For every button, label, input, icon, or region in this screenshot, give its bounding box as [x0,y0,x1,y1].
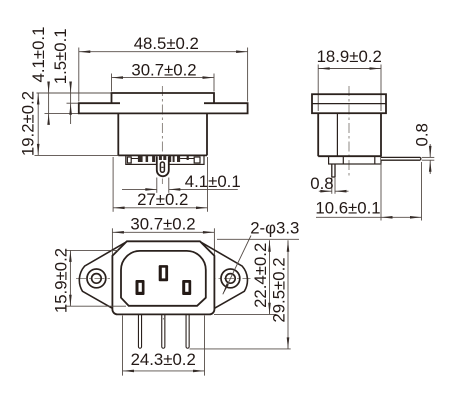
svg-text:0.8: 0.8 [413,123,432,146]
flange view2 [312,94,386,113]
dim 22.4 line [269,240,271,314]
vertical pin ext lines [331,177,333,194]
dim 10.6 line [316,216,422,218]
center post view1 [157,156,169,176]
dim 24.3 line [123,370,205,372]
svg-text:18.9±0.2: 18.9±0.2 [317,47,382,66]
ext line flange-bottom left [45,112,79,114]
recess outline [121,251,206,306]
ext line flange-top short [67,102,81,104]
dim 30.7 bottom ext lines [111,228,113,262]
right mounting hole [221,269,240,288]
horizontal pin view2 [381,157,421,160]
dim 30.7 ext lines [111,74,113,92]
terminal lug left [127,157,131,163]
svg-text:27±0.2: 27±0.2 [137,190,188,209]
left ear [79,242,127,309]
dim 18.9 ext lines [317,65,319,112]
dim 18.9 line [318,68,381,70]
dim 19.2 line [37,93,39,155]
body view2 [318,113,381,156]
svg-text:0.8: 0.8 [310,174,333,193]
left mounting hole [87,269,106,288]
svg-text:2-φ3.3: 2-φ3.3 [250,218,299,237]
dim 48.5 line [79,51,248,53]
leg left [138,314,141,348]
post slot [160,162,164,172]
ext line face-bottom right [214,313,276,315]
dim 4.1 left line [48,82,50,93]
dim 27 ext lines [112,157,114,212]
svg-text:24.3±0.2: 24.3±0.2 [131,350,196,369]
dim 15.9 line [69,250,71,306]
right ear [200,242,248,309]
svg-text:19.2±0.2: 19.2±0.2 [19,91,38,156]
svg-text:10.6±0.1: 10.6±0.1 [315,198,380,217]
ext line face-top right [217,238,299,240]
svg-text:48.5±0.2: 48.5±0.2 [134,34,199,53]
svg-text:4.1±0.1: 4.1±0.1 [185,172,241,191]
dim 30.7 line [112,77,215,79]
svg-text:29.5±0.2: 29.5±0.2 [270,257,289,322]
pin right [182,280,191,295]
dim 0.8 right ext lines [422,156,435,158]
dim 27 line [113,207,207,209]
centerline view3 horizontal [76,277,251,279]
lug window lines [131,158,138,160]
svg-text:30.7±0.2: 30.7±0.2 [130,215,195,234]
terminal strip view2 [329,156,381,164]
svg-text:22.4±0.2: 22.4±0.2 [251,243,270,308]
body inner line view2 [336,113,338,156]
dim 24.3 ext lines [122,316,124,376]
dim 29.5 line [287,240,289,349]
ext line leg-tip right [190,348,291,350]
dim 2-phi3.3 leader [223,236,251,295]
svg-text:1.5±0.1: 1.5±0.1 [51,28,70,84]
face plate view3 [112,241,214,314]
dim 48.5 ext lines [78,48,80,102]
terminal strip view1 [126,155,204,164]
leg right [186,314,189,348]
post top tabs [159,156,162,160]
cap view1 [112,93,215,103]
pin earth (center) [159,265,168,281]
dim 10.6 ext lines [380,163,382,221]
centerline view3 vertical [162,244,164,320]
svg-text:30.7±0.2: 30.7±0.2 [131,60,196,79]
dim 0.8 right line [429,144,431,157]
dim 1.5 left line [70,82,72,124]
centerline view2 [348,86,350,177]
pin left [136,280,145,295]
leg center [162,314,165,348]
post ext lines down [156,178,158,193]
svg-text:4.1±0.1: 4.1±0.1 [29,27,48,83]
ext line cap-top left [37,92,112,94]
dim 15.9 ext lines [65,249,119,251]
svg-text:15.9±0.2: 15.9±0.2 [52,248,71,313]
dim 4.1 bottom line [122,188,157,190]
dim 30.7 bottom line [112,231,214,233]
terminal lug right [194,157,200,163]
flange view1 [79,103,248,113]
dim 0.8 bottom line [319,190,332,192]
ext line body-bottom left [35,154,119,156]
centerline view1 [161,86,163,184]
vertical pin view2 [332,164,335,177]
body view1 [118,113,207,155]
